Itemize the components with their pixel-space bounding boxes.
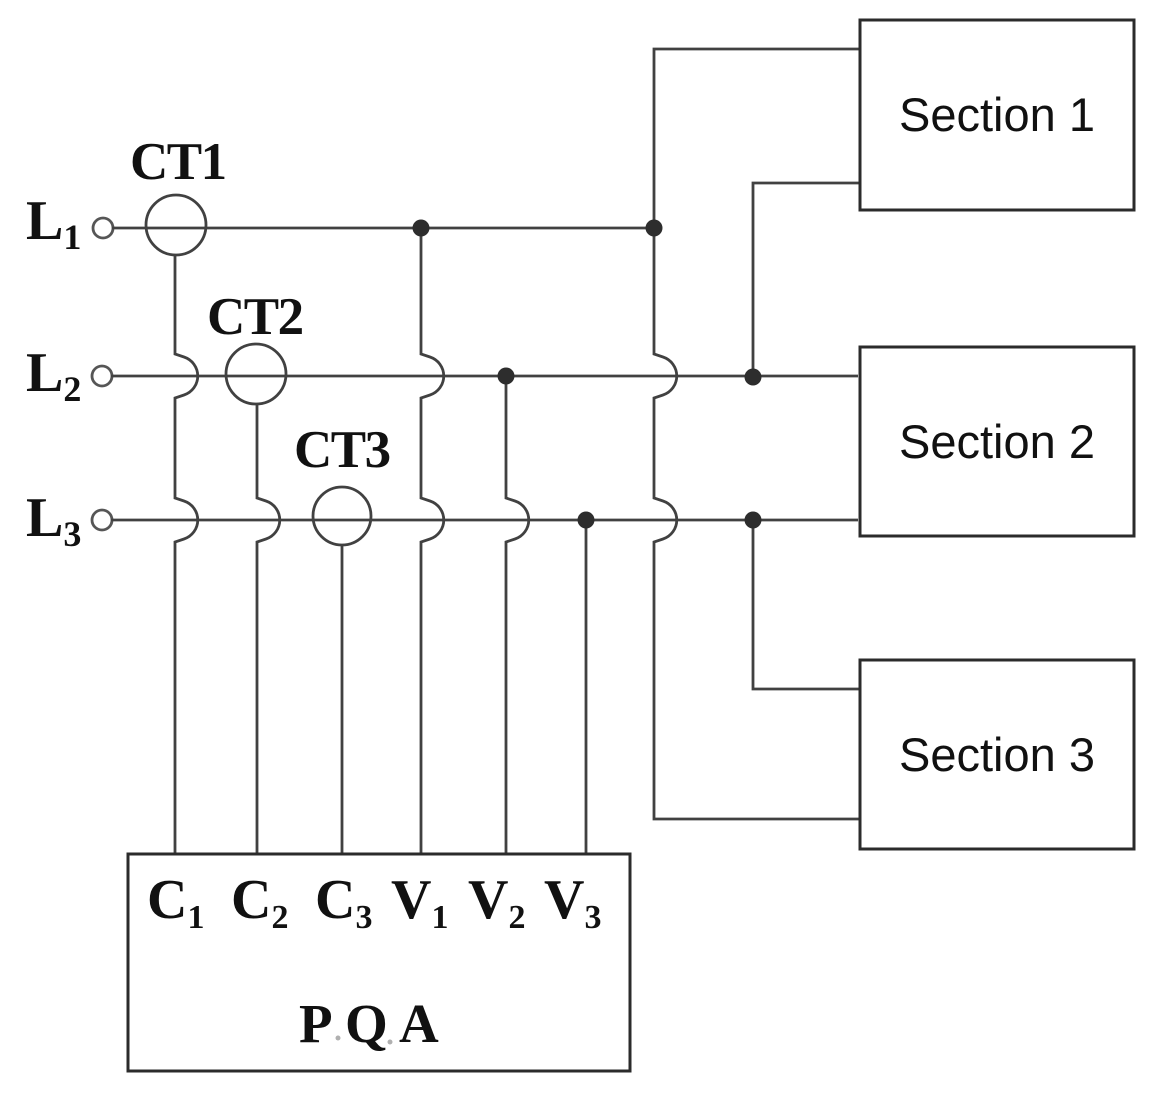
wire V1: L1 junction to PQA, hops over L2 and L3 <box>421 228 444 853</box>
CT2 <box>226 344 286 404</box>
wire L3 feeder: down to Section 3 upper terminal <box>753 520 860 689</box>
wire C1: CT1 to PQA, hops over L2 and L3 <box>175 255 198 853</box>
terminal L2 <box>92 366 112 386</box>
wire L3 <box>111 519 858 522</box>
terminal L3 <box>92 510 112 530</box>
junction V2-L2 <box>498 368 515 385</box>
wire L2 <box>111 375 858 378</box>
junction feeder-L3 <box>745 512 762 529</box>
CT1 <box>146 195 206 255</box>
svg-text:PQA: PQA <box>299 993 439 1054</box>
junction V1-L1 <box>413 220 430 237</box>
Section 3 box <box>860 660 1134 849</box>
wire L2 feeder: up to Section 1 lower terminal <box>753 183 860 377</box>
svg-text:Section 1: Section 1 <box>899 88 1095 141</box>
svg-text:Section 3: Section 3 <box>899 728 1095 781</box>
junction feeder-L2 <box>745 369 762 386</box>
wire V2: L2 junction to PQA, hop over L3 <box>506 376 529 853</box>
junction V3-L3 <box>578 512 595 529</box>
wire C2: CT2 to PQA, hop over L3 <box>257 404 280 853</box>
PQA label dot 2 <box>388 1040 393 1045</box>
junction feeder-L1 <box>646 220 663 237</box>
terminal L1 <box>93 218 113 238</box>
svg-text:CT3: CT3 <box>294 421 390 479</box>
wire V3: L3 junction to PQA <box>585 520 588 853</box>
svg-text:CT1: CT1 <box>130 133 226 191</box>
Section 1 box <box>860 20 1134 210</box>
Section 2 box <box>860 347 1134 536</box>
PQA box <box>128 854 630 1071</box>
CT3 <box>313 487 371 545</box>
PQA label dot 1 <box>336 1036 341 1041</box>
wire C3: CT3 to PQA <box>341 545 344 853</box>
wire L1 feeder: up to Section 1 top and down to Section 3 bottom, hops over L2 and L3 <box>654 49 860 819</box>
svg-text:CT2: CT2 <box>207 288 303 346</box>
svg-text:Section 2: Section 2 <box>899 415 1095 468</box>
wire L1 <box>112 227 654 230</box>
